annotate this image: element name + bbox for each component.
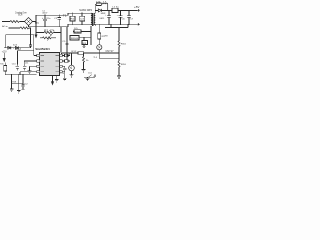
IC bottom stub arrow bbox=[52, 76, 54, 82]
wire output bottom rail bbox=[95, 24, 140, 26]
wire +12V bbox=[3, 53, 5, 58]
svg-text:R10: R10 bbox=[121, 43, 127, 45]
resistor R12 box bbox=[78, 52, 84, 55]
label T1 bbox=[63, 16, 68, 18]
resistor R20 box bbox=[62, 54, 64, 56]
terminal +5V bbox=[137, 9, 139, 11]
wire mosfet drain bbox=[79, 26, 91, 45]
inductor L1 coil bbox=[101, 3, 107, 10]
svg-text:EE25: EE25 bbox=[100, 18, 105, 20]
svg-text:C3: C3 bbox=[80, 19, 85, 21]
ground lower left 1 bbox=[10, 89, 14, 91]
wire bridge bottom to rail bbox=[29, 26, 37, 27]
label NTC bbox=[35, 23, 39, 25]
svg-text:SG3524N: SG3524N bbox=[35, 47, 50, 51]
wire bridge to bus bbox=[33, 21, 37, 23]
diode D1 output rectifier bbox=[98, 9, 101, 12]
wire C10 vertical bbox=[16, 51, 18, 65]
wire bottom mid pot cluster bbox=[84, 76, 95, 78]
wire fuse to bridge bbox=[19, 21, 24, 23]
wire fb rail bbox=[105, 27, 128, 29]
svg-text:AC-in: AC-in bbox=[2, 25, 9, 28]
junction dots input rails bbox=[44, 13, 82, 28]
resistor R10 on fb vertical bbox=[118, 28, 120, 41]
capacitor C11 bbox=[23, 65, 27, 71]
capacitor C5 output bbox=[107, 10, 111, 24]
wire aux riser bbox=[33, 35, 35, 51]
capacitor C3 snubber box bbox=[81, 13, 83, 16]
ground pot bbox=[86, 77, 90, 80]
wire pin3 ground drop bbox=[29, 66, 31, 71]
resistor R16 bbox=[118, 61, 120, 67]
label +5V bbox=[134, 6, 140, 9]
svg-text:C11: C11 bbox=[25, 63, 29, 65]
label R12 bbox=[72, 51, 78, 53]
svg-text:+: + bbox=[117, 15, 119, 17]
wire IC pin4 right stub bbox=[62, 71, 64, 73]
bridge rectifier BR1 bbox=[25, 18, 33, 26]
svg-text:R8: R8 bbox=[105, 36, 109, 38]
capacitor C2 bbox=[57, 15, 61, 27]
svg-text:CNY17: CNY17 bbox=[106, 51, 115, 53]
svg-text:C6: C6 bbox=[122, 18, 126, 20]
svg-text:SG3524 SMPS: SG3524 SMPS bbox=[79, 8, 92, 12]
IC U1 body bbox=[40, 53, 60, 76]
wire IC pin stubs left bbox=[20, 55, 37, 71]
resistor R1 snubber box bbox=[71, 13, 73, 16]
wire aux left drop bbox=[5, 35, 7, 48]
capacitor C9 bbox=[62, 41, 66, 43]
arrow down 12V bbox=[3, 58, 5, 61]
resistor R15 box bbox=[4, 63, 6, 66]
snubber box over diode bbox=[94, 4, 97, 10]
potentiometer RV1 bbox=[40, 37, 56, 39]
svg-text:TL4: TL4 bbox=[93, 57, 97, 59]
diode D3 bbox=[15, 46, 18, 49]
svg-text:R2 47k: R2 47k bbox=[44, 29, 56, 32]
IC U1 left pins bbox=[37, 54, 40, 73]
wire top rail HV bbox=[36, 13, 91, 15]
wire vertical bus B bbox=[66, 27, 68, 60]
label D6 bbox=[96, 1, 108, 3]
wire aux diode row bbox=[4, 47, 30, 49]
resistor R3 sense box bbox=[83, 38, 85, 41]
svg-text:R1: R1 bbox=[71, 19, 76, 21]
label C1 above bbox=[42, 10, 48, 14]
svg-text:D2: D2 bbox=[13, 44, 18, 46]
svg-text:C7: C7 bbox=[130, 18, 134, 20]
node HV bus bbox=[35, 15, 37, 32]
wire secondary top to rail bbox=[95, 10, 98, 13]
label AC 220 bbox=[2, 25, 9, 28]
capacitor C10 bbox=[16, 65, 20, 71]
svg-text:220u: 220u bbox=[46, 18, 51, 20]
resistor R2 feed bbox=[36, 32, 44, 34]
ground fb bbox=[117, 76, 121, 78]
resistor R9 vertical bbox=[98, 24, 100, 33]
transistor Q2 circle bbox=[97, 45, 102, 50]
node aux bbox=[13, 47, 14, 48]
thermistor RT1 bbox=[20, 27, 29, 29]
ground R13 bbox=[82, 70, 86, 72]
svg-text:400V: 400V bbox=[42, 13, 48, 15]
capacitor C13 bbox=[62, 66, 66, 78]
label opto part no bbox=[106, 51, 115, 53]
terminal 0V bbox=[138, 23, 139, 25]
label schematic title bbox=[79, 8, 92, 12]
svg-text:C13: C13 bbox=[60, 73, 65, 75]
diode D5 box bbox=[73, 30, 74, 32]
potentiometer RV2 bbox=[89, 75, 92, 78]
wire opto collector rail bbox=[61, 52, 78, 54]
svg-text:NTC: NTC bbox=[35, 23, 39, 25]
optocoupler U2 circle bbox=[69, 65, 75, 71]
svg-text:R16: R16 bbox=[121, 64, 127, 66]
wire bottom rail HV bbox=[36, 24, 95, 26]
label L2 bbox=[112, 7, 119, 9]
wire AC input live bbox=[2, 21, 10, 23]
svg-text:R12: R12 bbox=[72, 51, 78, 53]
svg-text:+5V: +5V bbox=[134, 6, 140, 9]
wire fb horizontal 2 bbox=[99, 53, 119, 59]
label +12V bbox=[2, 48, 21, 54]
arrow down bus bbox=[35, 33, 37, 35]
wire fb horizontal 1 bbox=[99, 52, 119, 54]
svg-text:T1: T1 bbox=[63, 16, 68, 18]
wire aux line 2 bbox=[6, 34, 34, 36]
IC U1 pin labels texture bbox=[41, 55, 59, 72]
inductor L2 box bbox=[112, 8, 118, 12]
junction dots output bbox=[108, 10, 129, 25]
resistor R13 vertical bbox=[83, 53, 85, 57]
label D1 part bbox=[100, 13, 106, 20]
capacitor C1 bbox=[43, 15, 47, 27]
wire vertical bus A bbox=[60, 27, 62, 53]
svg-text:IRF840: IRF840 bbox=[71, 38, 79, 40]
svg-text:+: + bbox=[105, 14, 107, 16]
wire lower-left rail bbox=[5, 74, 36, 76]
ground IC bottom bbox=[55, 76, 59, 82]
ground opto bbox=[70, 75, 74, 77]
svg-text:Vref: Vref bbox=[15, 48, 21, 51]
capacitor C4 aux bbox=[29, 45, 32, 48]
wire pin1 to C10 bbox=[33, 51, 35, 56]
svg-text:C14: C14 bbox=[88, 73, 93, 75]
wire aux to vcc bbox=[17, 50, 33, 52]
svg-text:C9: C9 bbox=[62, 41, 66, 43]
transformer T1 secondary winding bbox=[94, 13, 95, 24]
label SG3524N bbox=[35, 47, 50, 51]
wire pin4 left bbox=[19, 72, 21, 75]
svg-text:C10: C10 bbox=[12, 64, 17, 66]
node pot bbox=[93, 77, 94, 78]
capacitor C7 output bbox=[127, 10, 131, 24]
ground C13 bbox=[63, 78, 67, 80]
ground lower left 2 bbox=[17, 91, 21, 93]
IC U1 right pins bbox=[60, 54, 63, 73]
svg-text:SCR: SCR bbox=[18, 13, 22, 17]
transformer T1 primary winding bbox=[91, 13, 92, 24]
MOSFET Q1 box bbox=[70, 36, 79, 40]
ground left cluster bbox=[28, 71, 32, 73]
label C10 bbox=[12, 64, 17, 66]
transformer T1 core bbox=[93, 13, 94, 26]
diode D2 bbox=[8, 46, 11, 49]
fuse F1 bbox=[10, 21, 19, 23]
wire aux line 1 bbox=[9, 27, 21, 29]
wire C11 vertical bbox=[24, 61, 26, 65]
svg-text:1k: 1k bbox=[86, 60, 90, 62]
capacitor C6 output bbox=[119, 10, 123, 24]
resistor R21 box bbox=[62, 60, 64, 62]
label crowbar text bbox=[15, 10, 27, 16]
label plus C5 bbox=[105, 14, 119, 16]
capacitor C12 bbox=[21, 84, 24, 88]
